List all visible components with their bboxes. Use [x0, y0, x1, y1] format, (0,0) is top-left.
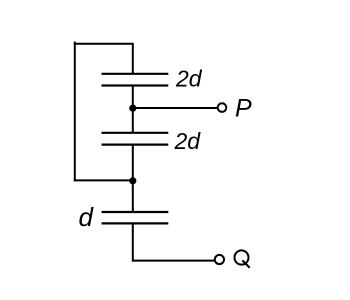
capacitor C1 top (gap 2d) [102, 74, 169, 86]
node junction to left loop [129, 177, 136, 184]
label Q [235, 250, 250, 267]
capacitor C3 bottom (gap d) [102, 212, 169, 223]
wire left loop bottom horizontal [74, 179, 133, 181]
terminal Q open circle [215, 255, 224, 264]
wire top horizontal [74, 43, 134, 45]
wire bottom horizontal to Q [132, 260, 215, 262]
svg-text:2d: 2d [174, 128, 202, 154]
capacitor C2 middle (gap 2d) [102, 133, 169, 145]
wire C3 down [132, 223, 134, 261]
svg-text:d: d [79, 202, 95, 232]
wire top right vertical [132, 44, 134, 74]
terminal P open circle [218, 103, 227, 112]
svg-text:P: P [235, 95, 252, 123]
node junction to P [129, 105, 136, 112]
wire left loop vertical [74, 42, 76, 182]
wire to terminal P [133, 107, 217, 109]
wire C1 to C2 [132, 86, 134, 133]
wire C2 to C3 [132, 145, 134, 212]
svg-text:2d: 2d [175, 66, 203, 92]
